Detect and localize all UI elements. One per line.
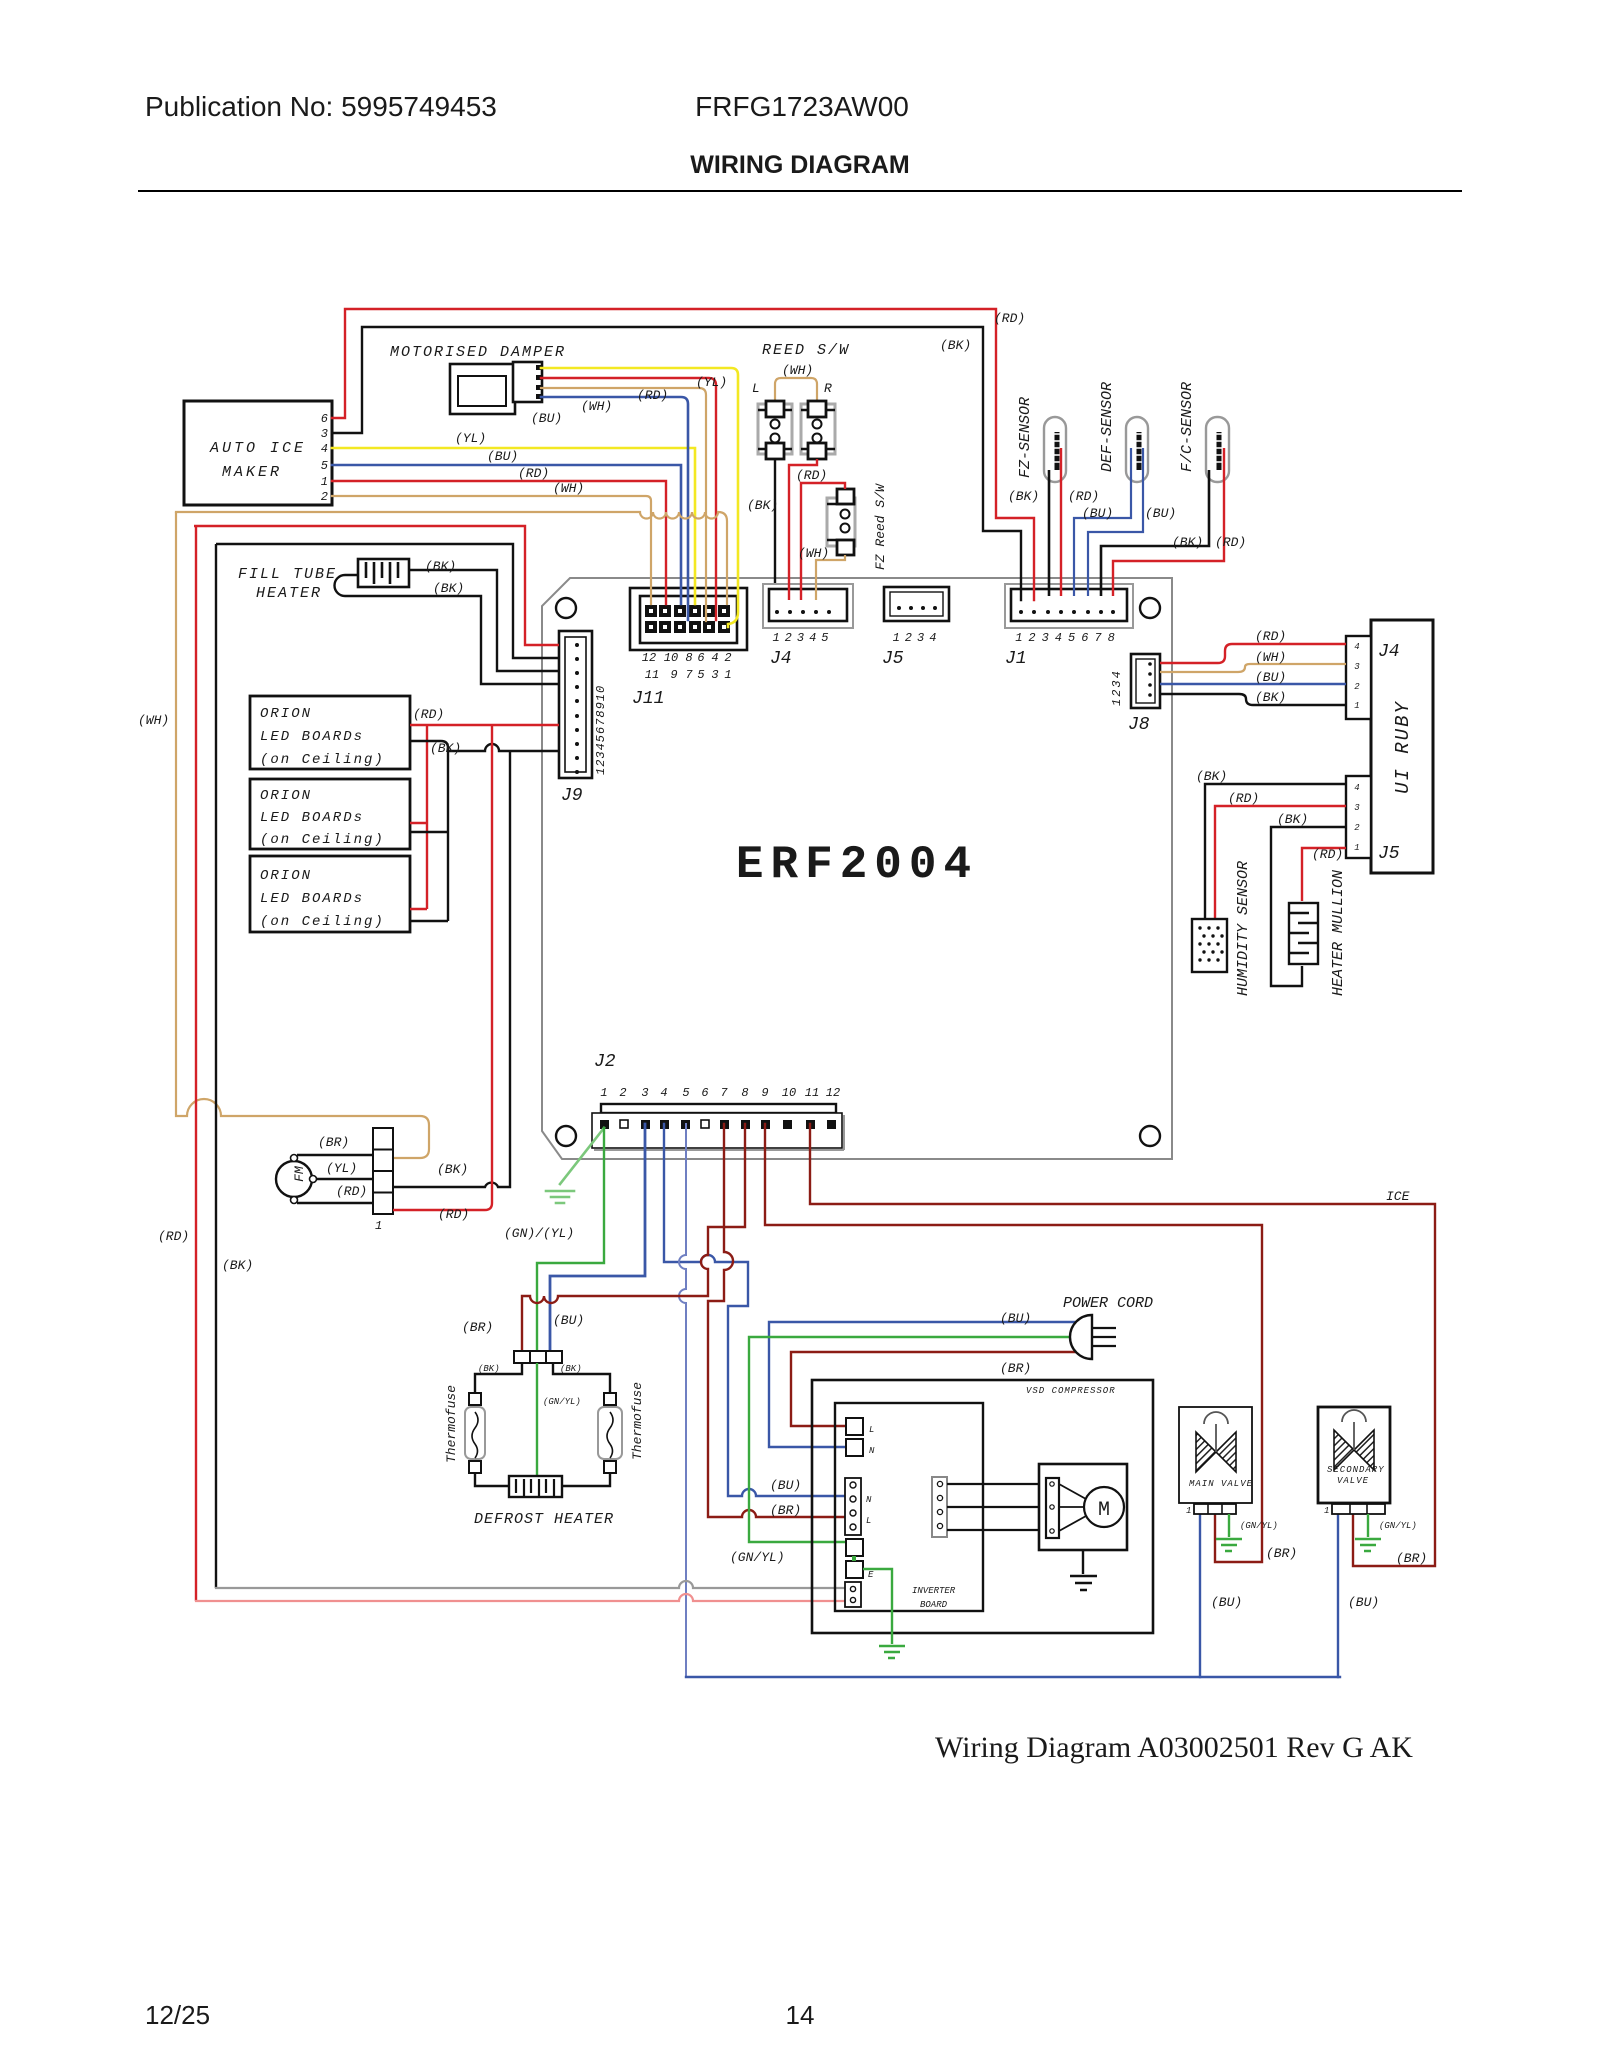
svg-text:N: N (866, 1495, 872, 1505)
svg-text:(BK): (BK) (430, 741, 461, 756)
svg-text:(BU): (BU) (770, 1478, 801, 1493)
svg-text:SECONDARY: SECONDARY (1327, 1465, 1385, 1475)
svg-text:MAIN VALVE: MAIN VALVE (1189, 1479, 1253, 1489)
svg-text:(RD): (RD) (518, 466, 549, 481)
svg-text:(RD): (RD) (336, 1184, 367, 1199)
svg-text:(RD): (RD) (796, 468, 827, 483)
svg-text:5: 5 (697, 668, 704, 682)
svg-text:J1: J1 (1005, 649, 1027, 669)
svg-text:HUMIDITY SENSOR: HUMIDITY SENSOR (1235, 861, 1252, 996)
svg-text:9: 9 (670, 668, 677, 682)
svg-text:DEF-SENSOR: DEF-SENSOR (1099, 382, 1116, 472)
svg-text:1: 1 (321, 475, 328, 489)
svg-text:Thermofuse: Thermofuse (630, 1382, 645, 1460)
svg-text:(WH): (WH) (798, 546, 829, 561)
svg-text:8: 8 (741, 1086, 748, 1100)
svg-text:(BU): (BU) (1145, 506, 1176, 521)
svg-text:3: 3 (1354, 803, 1360, 813)
svg-text:MOTORISED DAMPER: MOTORISED DAMPER (390, 344, 566, 361)
svg-text:BOARD: BOARD (920, 1600, 948, 1610)
svg-text:7: 7 (720, 1086, 728, 1100)
svg-text:1: 1 (1354, 843, 1359, 853)
svg-text:L: L (869, 1425, 874, 1435)
svg-text:4: 4 (1354, 783, 1359, 793)
svg-text:8: 8 (685, 651, 692, 665)
svg-text:J5: J5 (882, 649, 904, 669)
svg-text:3: 3 (1354, 662, 1360, 672)
svg-text:FILL TUBE: FILL TUBE (238, 566, 337, 583)
svg-text:(BR): (BR) (1000, 1361, 1031, 1376)
svg-text:(BR): (BR) (318, 1135, 349, 1150)
svg-text:(YL): (YL) (455, 431, 486, 446)
svg-text:(YL): (YL) (696, 375, 727, 390)
svg-text:2: 2 (724, 651, 731, 665)
svg-text:(BK): (BK) (478, 1364, 500, 1374)
svg-text:(GN)/(YL): (GN)/(YL) (504, 1226, 574, 1241)
svg-text:J9: J9 (561, 786, 583, 806)
svg-text:1: 1 (375, 1219, 382, 1233)
svg-text:J11: J11 (632, 689, 664, 709)
svg-text:J8: J8 (1128, 715, 1150, 735)
svg-text:6: 6 (697, 651, 704, 665)
svg-text:REED S/W: REED S/W (762, 342, 850, 359)
svg-text:9: 9 (761, 1086, 768, 1100)
svg-text:(BR): (BR) (462, 1320, 493, 1335)
svg-text:(WH): (WH) (581, 399, 612, 414)
svg-text:12345: 12345 (772, 631, 833, 645)
svg-text:FM: FM (292, 1166, 307, 1182)
svg-text:L: L (752, 381, 760, 396)
svg-text:1234: 1234 (893, 631, 942, 645)
svg-text:12: 12 (642, 651, 656, 665)
svg-text:2: 2 (1354, 682, 1360, 692)
svg-text:ICE: ICE (1386, 1189, 1410, 1204)
svg-text:(WH): (WH) (138, 713, 169, 728)
svg-text:(RD): (RD) (637, 388, 668, 403)
svg-text:(BK): (BK) (1255, 690, 1286, 705)
svg-text:WIRING DIAGRAM: WIRING DIAGRAM (690, 151, 909, 179)
svg-text:(GN/YL): (GN/YL) (543, 1397, 581, 1407)
svg-text:FZ-SENSOR: FZ-SENSOR (1017, 397, 1034, 478)
svg-text:VSD COMPRESSOR: VSD COMPRESSOR (1026, 1386, 1116, 1396)
svg-text:11: 11 (645, 668, 659, 682)
svg-text:4: 4 (1354, 642, 1359, 652)
svg-text:6: 6 (701, 1086, 708, 1100)
svg-text:12/25: 12/25 (145, 2000, 210, 2030)
svg-text:1: 1 (1354, 701, 1359, 711)
svg-text:(BK): (BK) (1196, 769, 1227, 784)
svg-text:1: 1 (1324, 1506, 1329, 1516)
svg-text:(BU): (BU) (1255, 670, 1286, 685)
svg-text:L: L (866, 1516, 871, 1526)
svg-text:ERF2004: ERF2004 (736, 839, 978, 891)
svg-text:ORION: ORION (260, 868, 312, 884)
svg-text:FRFG1723AW00: FRFG1723AW00 (695, 91, 909, 122)
svg-text:E: E (868, 1570, 874, 1580)
svg-text:2: 2 (321, 490, 328, 504)
svg-text:1: 1 (600, 1086, 607, 1100)
svg-text:7: 7 (685, 668, 693, 682)
svg-text:J4: J4 (1378, 642, 1400, 662)
svg-text:ORION: ORION (260, 788, 312, 804)
svg-text:(RD): (RD) (1255, 629, 1286, 644)
svg-text:(GN/YL): (GN/YL) (1240, 1521, 1278, 1531)
svg-text:14: 14 (786, 2000, 815, 2030)
svg-text:6: 6 (321, 412, 328, 426)
svg-text:(WH): (WH) (1255, 650, 1286, 665)
svg-text:(BU): (BU) (531, 411, 562, 426)
svg-text:12: 12 (826, 1086, 840, 1100)
svg-text:1: 1 (724, 668, 731, 682)
svg-text:(BU): (BU) (1348, 1595, 1379, 1610)
svg-text:N: N (869, 1446, 875, 1456)
svg-text:(RD): (RD) (413, 707, 444, 722)
svg-text:(WH): (WH) (782, 363, 813, 378)
svg-text:5: 5 (321, 459, 328, 473)
svg-text:UI RUBY: UI RUBY (1392, 700, 1414, 794)
svg-text:LED BOARDs: LED BOARDs (260, 810, 364, 826)
svg-text:(RD): (RD) (1228, 791, 1259, 806)
svg-text:J5: J5 (1378, 844, 1400, 864)
svg-text:(BK): (BK) (747, 498, 778, 513)
svg-text:(BK): (BK) (1172, 535, 1203, 550)
svg-text:(BK): (BK) (222, 1258, 253, 1273)
svg-text:INVERTER: INVERTER (912, 1586, 956, 1596)
svg-text:(RD): (RD) (1312, 847, 1343, 862)
svg-text:3: 3 (321, 427, 328, 441)
svg-text:1: 1 (1186, 1506, 1191, 1516)
svg-text:(BK): (BK) (1008, 489, 1039, 504)
svg-text:4: 4 (711, 651, 718, 665)
svg-text:AUTO ICE: AUTO ICE (209, 440, 306, 457)
svg-text:(BK): (BK) (1277, 812, 1308, 827)
svg-text:Wiring Diagram A03002501 Rev G: Wiring Diagram A03002501 Rev G AK (935, 1731, 1413, 1764)
svg-text:2: 2 (619, 1086, 626, 1100)
svg-text:(BU): (BU) (1211, 1595, 1242, 1610)
svg-text:(BU): (BU) (1000, 1311, 1031, 1326)
svg-text:11: 11 (805, 1086, 819, 1100)
svg-text:R: R (824, 381, 832, 396)
svg-text:10: 10 (782, 1086, 796, 1100)
svg-text:FZ Reed S/W: FZ Reed S/W (873, 483, 888, 570)
svg-text:3: 3 (711, 668, 718, 682)
svg-text:(RD): (RD) (158, 1229, 189, 1244)
svg-text:4: 4 (321, 442, 328, 456)
svg-text:Publication No: 5995749453: Publication No: 5995749453 (145, 91, 497, 122)
svg-text:J2: J2 (594, 1052, 616, 1072)
svg-text:J4: J4 (770, 649, 792, 669)
svg-text:1234: 1234 (1110, 669, 1124, 706)
svg-text:(BK): (BK) (433, 581, 464, 596)
svg-text:DEFROST HEATER: DEFROST HEATER (474, 1511, 614, 1528)
svg-text:(RD): (RD) (438, 1207, 469, 1222)
svg-text:VALVE: VALVE (1337, 1476, 1369, 1486)
svg-text:(RD): (RD) (1215, 535, 1246, 550)
svg-text:12345678910: 12345678910 (594, 685, 608, 775)
svg-text:4: 4 (660, 1086, 667, 1100)
svg-text:F/C-SENSOR: F/C-SENSOR (1179, 382, 1196, 472)
svg-text:Thermofuse: Thermofuse (444, 1385, 459, 1463)
svg-text:(RD): (RD) (1068, 489, 1099, 504)
svg-text:M: M (1098, 1499, 1110, 1522)
svg-text:POWER CORD: POWER CORD (1063, 1295, 1153, 1312)
svg-text:HEATER MULLION: HEATER MULLION (1330, 870, 1347, 996)
svg-text:MAKER: MAKER (222, 464, 282, 481)
svg-text:(BK): (BK) (425, 559, 456, 574)
svg-text:(WH): (WH) (553, 481, 584, 496)
svg-text:12345678: 12345678 (1015, 631, 1121, 645)
svg-text:(BU): (BU) (553, 1313, 584, 1328)
svg-text:HEATER: HEATER (256, 585, 322, 602)
svg-text:(BK): (BK) (560, 1364, 582, 1374)
svg-text:(BK): (BK) (437, 1162, 468, 1177)
svg-text:(YL): (YL) (326, 1161, 357, 1176)
svg-text:(BR): (BR) (1266, 1546, 1297, 1561)
svg-text:(on Ceiling): (on Ceiling) (260, 832, 385, 848)
svg-text:3: 3 (641, 1086, 648, 1100)
svg-text:(BK): (BK) (940, 338, 971, 353)
svg-text:(RD): (RD) (994, 311, 1025, 326)
svg-text:(on Ceiling): (on Ceiling) (260, 752, 385, 768)
svg-text:(GN/YL): (GN/YL) (730, 1550, 785, 1565)
svg-text:(BR): (BR) (1396, 1551, 1427, 1566)
svg-text:ORION: ORION (260, 706, 312, 722)
svg-text:5: 5 (682, 1086, 689, 1100)
svg-text:LED BOARDs: LED BOARDs (260, 891, 364, 907)
svg-text:(GN/YL): (GN/YL) (1379, 1521, 1417, 1531)
svg-text:(BR): (BR) (770, 1503, 801, 1518)
svg-text:(BU): (BU) (1082, 506, 1113, 521)
svg-text:LED BOARDs: LED BOARDs (260, 729, 364, 745)
svg-text:(BU): (BU) (487, 449, 518, 464)
svg-text:10: 10 (664, 651, 678, 665)
svg-text:(on Ceiling): (on Ceiling) (260, 914, 385, 930)
svg-text:2: 2 (1354, 823, 1360, 833)
